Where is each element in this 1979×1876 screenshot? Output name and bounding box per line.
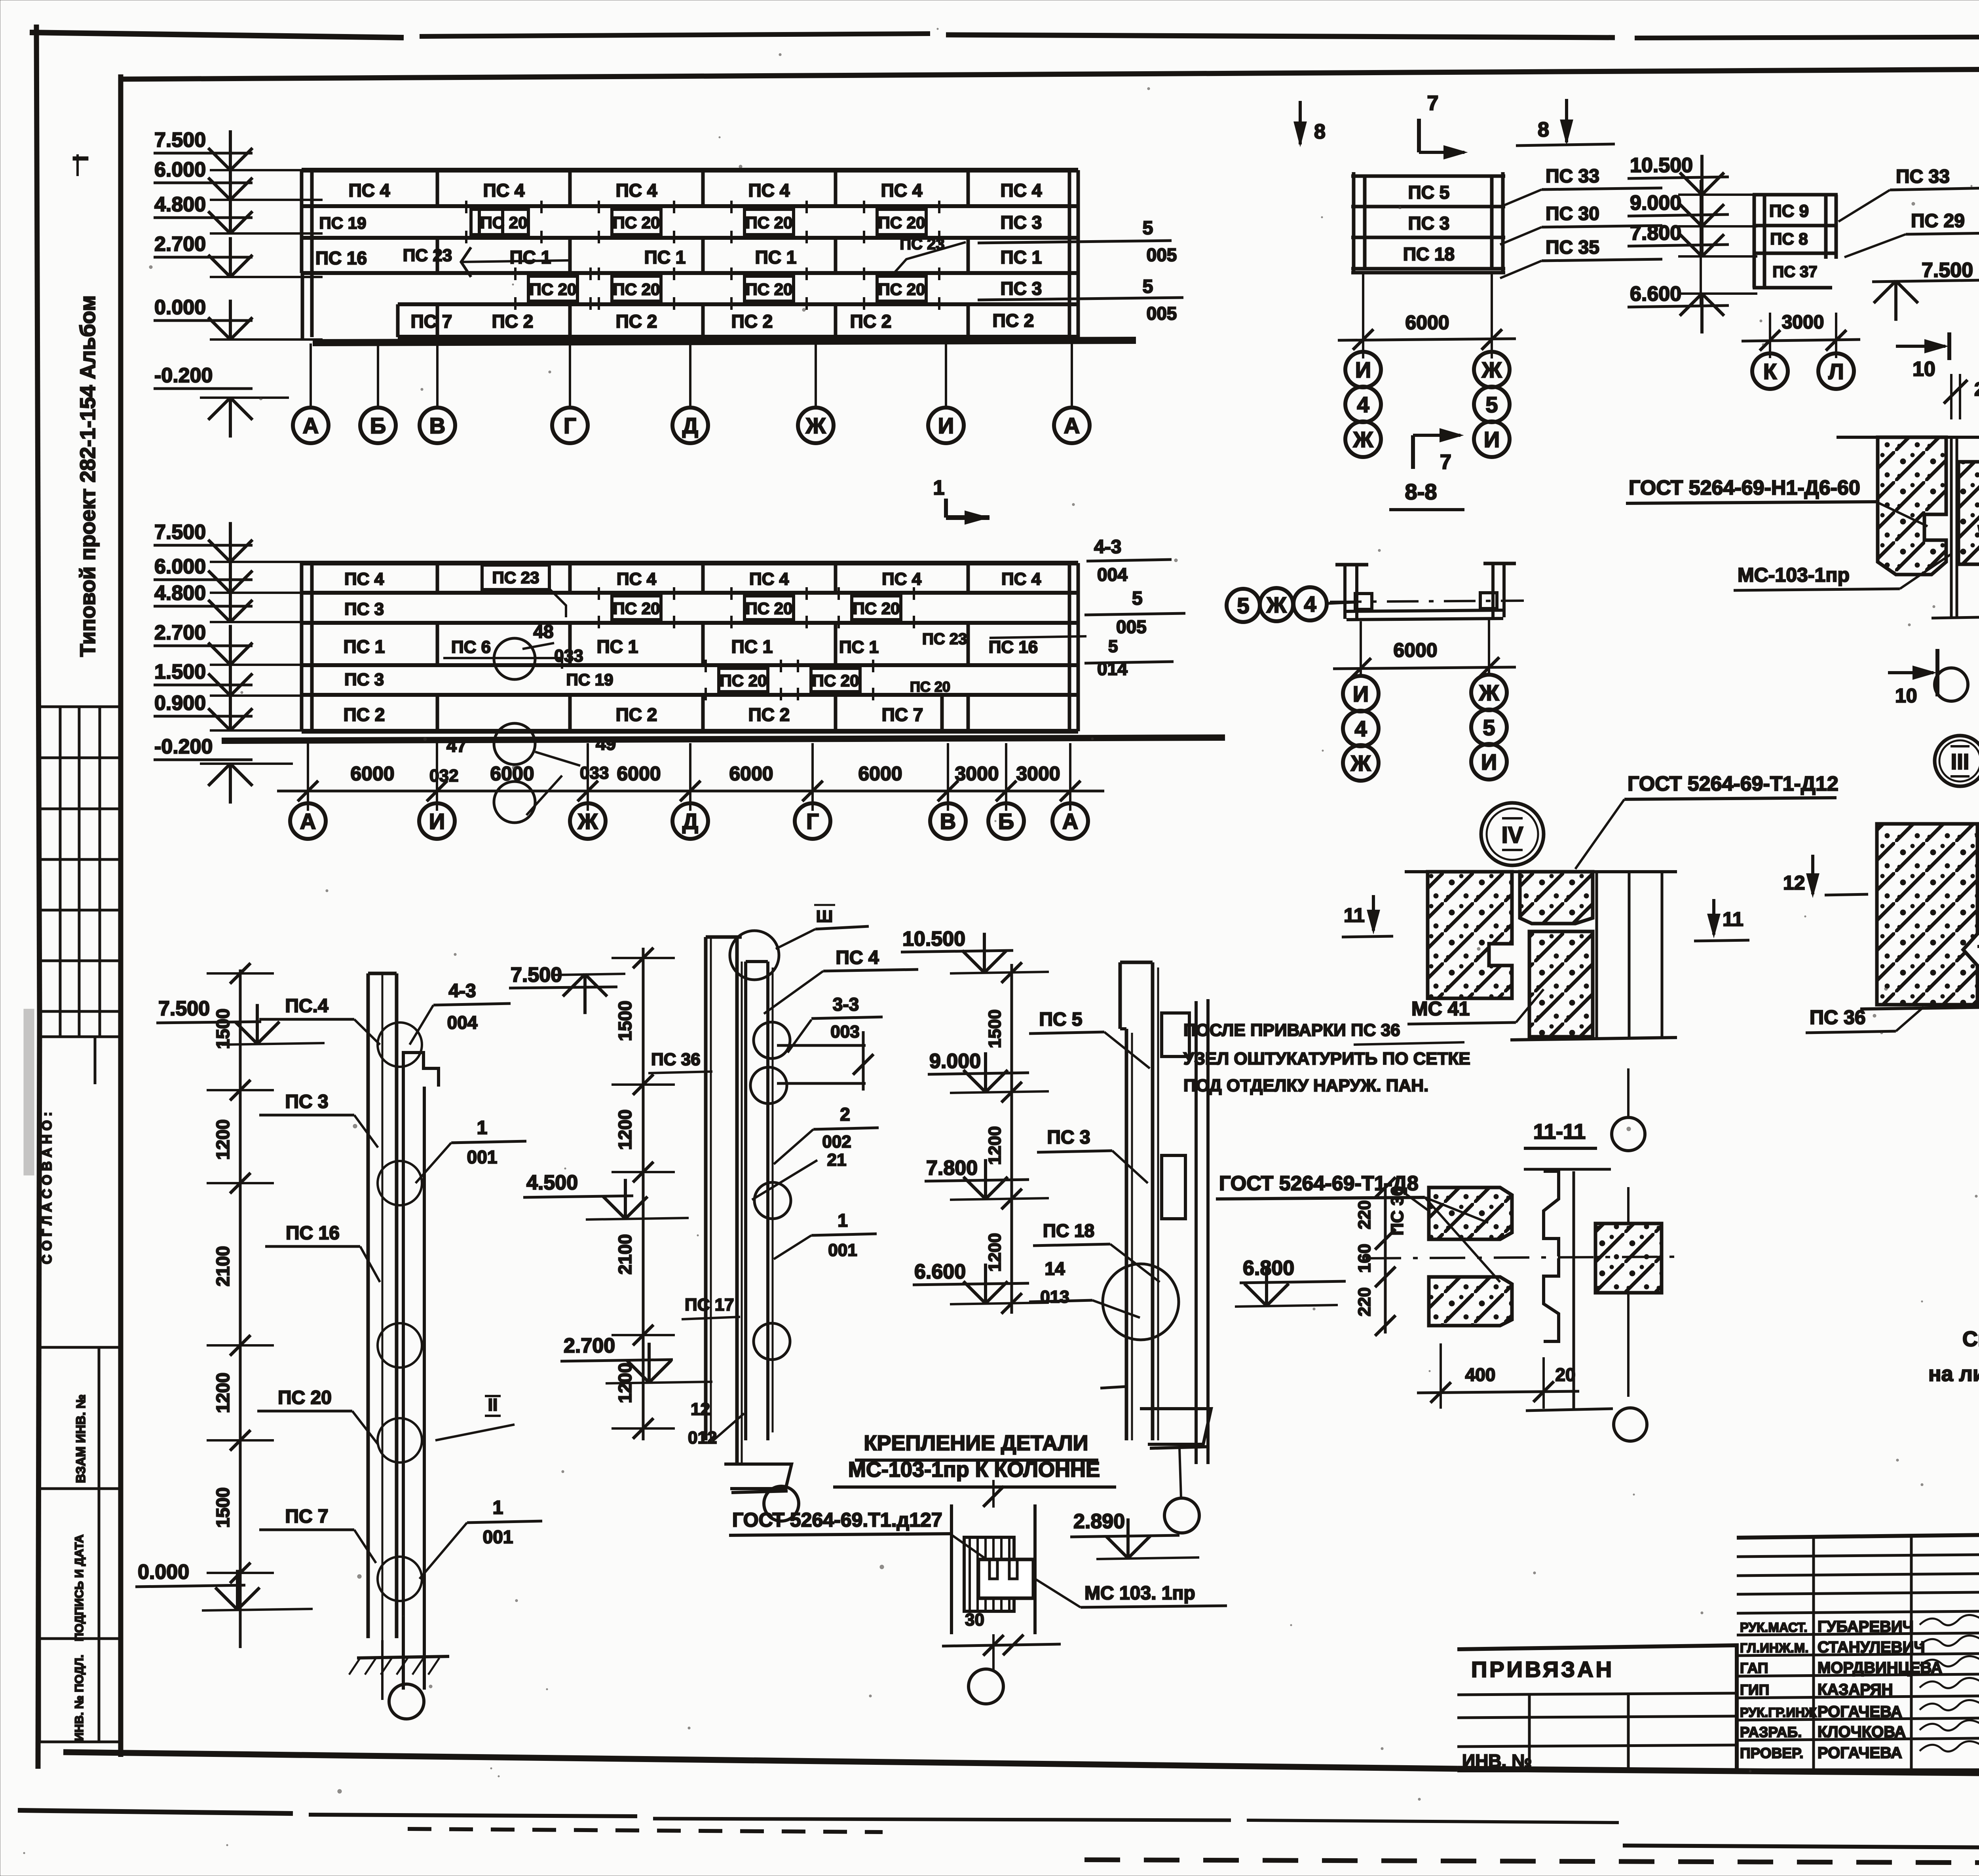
svg-text:7.500: 7.500 [1922, 259, 1973, 282]
svg-text:Б: Б [370, 413, 386, 438]
svg-text:ПС 23: ПС 23 [492, 568, 539, 587]
svg-text:ГОСТ 5264-69-Т1-Д12: ГОСТ 5264-69-Т1-Д12 [1628, 772, 1838, 795]
svg-text:10: 10 [1895, 685, 1917, 707]
svg-text:4.800: 4.800 [154, 193, 206, 216]
svg-text:ПС 33: ПС 33 [1896, 166, 1950, 187]
svg-text:ПС 1: ПС 1 [344, 636, 385, 657]
svg-text:4: 4 [1304, 592, 1316, 616]
svg-text:ПОДПИСЬ И ДАТА: ПОДПИСЬ И ДАТА [73, 1535, 86, 1641]
svg-text:4: 4 [1354, 716, 1367, 741]
svg-text:III: III [1951, 749, 1970, 774]
svg-text:1200: 1200 [615, 1363, 635, 1403]
svg-text:СТАНУЛЕВИЧ: СТАНУЛЕВИЧ [1818, 1639, 1925, 1656]
svg-text:ПС 1: ПС 1 [510, 247, 551, 267]
svg-text:032: 032 [429, 766, 458, 785]
svg-text:ПС 3: ПС 3 [344, 599, 384, 619]
svg-text:ПС 4: ПС 4 [748, 180, 790, 201]
svg-text:3000: 3000 [955, 763, 999, 785]
svg-text:1200: 1200 [985, 1126, 1005, 1165]
svg-text:ПС 8: ПС 8 [1770, 230, 1808, 248]
svg-text:0.900: 0.900 [154, 692, 206, 715]
svg-text:6.000: 6.000 [154, 158, 206, 181]
svg-text:ПС 3: ПС 3 [1001, 278, 1042, 299]
svg-text:ПС 19: ПС 19 [566, 670, 613, 689]
svg-text:ПС 1: ПС 1 [597, 636, 638, 657]
svg-text:005: 005 [1147, 245, 1177, 265]
svg-text:ПС 2: ПС 2 [731, 311, 773, 332]
svg-text:ПС 4: ПС 4 [836, 947, 879, 968]
svg-text:ПС 20: ПС 20 [878, 280, 925, 299]
svg-text:1: 1 [933, 476, 945, 499]
svg-text:1500: 1500 [615, 1001, 635, 1041]
svg-text:ГИП: ГИП [1740, 1682, 1769, 1698]
svg-text:МС-103-1пр: МС-103-1пр [1738, 564, 1850, 586]
svg-text:ПС 36: ПС 36 [651, 1050, 701, 1069]
svg-text:Д: Д [682, 809, 698, 834]
svg-text:5: 5 [1485, 392, 1498, 417]
svg-text:ПС 20: ПС 20 [481, 213, 528, 232]
svg-text:ПС 20: ПС 20 [910, 679, 950, 695]
svg-text:В: В [429, 413, 445, 438]
svg-text:Ж: Ж [1266, 592, 1287, 617]
svg-text:ПС 2: ПС 2 [344, 704, 385, 725]
svg-text:И: И [1484, 427, 1500, 452]
svg-text:47: 47 [446, 735, 467, 756]
svg-text:ПС 4: ПС 4 [749, 569, 789, 589]
svg-text:ПС 20: ПС 20 [746, 213, 793, 232]
svg-text:ПС 2: ПС 2 [616, 704, 657, 725]
svg-text:Д: Д [682, 413, 698, 438]
svg-text:ПС 4: ПС 4 [1001, 569, 1041, 589]
svg-text:7.800: 7.800 [926, 1157, 978, 1180]
svg-text:Л: Л [1828, 359, 1844, 384]
svg-text:1500: 1500 [213, 1487, 233, 1528]
svg-text:3-3: 3-3 [833, 994, 859, 1015]
svg-text:ПС 20: ПС 20 [878, 213, 925, 232]
svg-text:Г: Г [564, 413, 576, 438]
svg-text:ВЗАМ ИНВ. №: ВЗАМ ИНВ. № [74, 1394, 88, 1483]
svg-text:Спецификация панелей: Спецификация панелей [1962, 1327, 1979, 1351]
svg-text:И: И [429, 809, 445, 834]
svg-text:160: 160 [1355, 1244, 1374, 1273]
svg-text:ПС 1: ПС 1 [644, 247, 686, 267]
svg-text:ПОД ОТДЕЛКУ НАРУЖ. ПАН.: ПОД ОТДЕЛКУ НАРУЖ. ПАН. [1183, 1076, 1428, 1095]
svg-text:2.700: 2.700 [154, 233, 206, 256]
svg-text:10.500: 10.500 [902, 928, 965, 950]
svg-text:МС-103-1пр К КОЛОННЕ: МС-103-1пр К КОЛОННЕ [848, 1458, 1100, 1481]
svg-text:ПС 20: ПС 20 [853, 599, 900, 618]
svg-text:ПОСЛЕ ПРИВАРКИ ПС 36: ПОСЛЕ ПРИВАРКИ ПС 36 [1183, 1021, 1400, 1040]
svg-text:002: 002 [822, 1132, 851, 1151]
svg-text:ИНВ. №: ИНВ. № [1462, 1751, 1532, 1771]
svg-text:5: 5 [1483, 715, 1495, 740]
svg-text:ПС 20: ПС 20 [746, 599, 793, 618]
svg-text:ПС 36: ПС 36 [1810, 1006, 1866, 1028]
svg-text:ГАП: ГАП [1740, 1660, 1768, 1676]
svg-text:003: 003 [830, 1022, 859, 1041]
svg-text:ПРИВЯЗАН: ПРИВЯЗАН [1471, 1657, 1614, 1682]
svg-text:9.000: 9.000 [929, 1050, 981, 1073]
svg-text:ПС 1: ПС 1 [839, 637, 879, 657]
svg-text:ПС 5: ПС 5 [1039, 1009, 1082, 1030]
svg-text:I: I [69, 156, 93, 161]
svg-text:3000: 3000 [1016, 763, 1060, 785]
svg-text:012: 012 [688, 1428, 717, 1447]
svg-text:ПС 1: ПС 1 [731, 636, 773, 657]
svg-text:ПС 3: ПС 3 [1001, 212, 1042, 233]
svg-text:РУК.ГР.ИНЖ: РУК.ГР.ИНЖ [1740, 1705, 1817, 1720]
svg-text:А: А [1062, 809, 1078, 834]
svg-text:ИНВ. № ПОДЛ.: ИНВ. № ПОДЛ. [73, 1654, 86, 1741]
svg-text:И: И [1355, 357, 1371, 382]
svg-text:Ж: Ж [805, 413, 826, 438]
svg-text:ГЛ.ИНЖ.М.: ГЛ.ИНЖ.М. [1740, 1641, 1808, 1655]
svg-text:11: 11 [1723, 908, 1743, 930]
svg-text:001: 001 [828, 1241, 857, 1260]
svg-text:ПС 4: ПС 4 [616, 180, 657, 201]
svg-text:УЗЕЛ ОШТУКАТУРИТЬ ПО СЕТКЕ: УЗЕЛ ОШТУКАТУРИТЬ ПО СЕТКЕ [1183, 1049, 1470, 1068]
svg-text:ПС 16: ПС 16 [989, 637, 1038, 657]
svg-text:Ш: Ш [816, 907, 833, 926]
svg-text:6000: 6000 [617, 763, 661, 785]
svg-text:8: 8 [1538, 118, 1549, 141]
svg-text:7.800: 7.800 [1630, 222, 1681, 245]
svg-text:Ж: Ж [1479, 680, 1499, 705]
svg-text:КРЕПЛЕНИЕ ДЕТАЛИ: КРЕПЛЕНИЕ ДЕТАЛИ [864, 1431, 1088, 1455]
svg-text:ГОСТ 5264-69.Т1.д127: ГОСТ 5264-69.Т1.д127 [732, 1509, 942, 1531]
svg-text:7: 7 [1427, 92, 1439, 115]
svg-text:Ж: Ж [577, 809, 598, 834]
svg-text:ПС 17: ПС 17 [685, 1295, 734, 1315]
svg-text:6.600: 6.600 [1630, 283, 1681, 305]
svg-text:Ж: Ж [1353, 427, 1373, 452]
svg-text:Типовой проект 282-1-154: Типовой проект 282-1-154 Альбом [76, 295, 100, 657]
svg-text:004: 004 [447, 1012, 478, 1033]
svg-text:4-3: 4-3 [448, 981, 476, 1002]
svg-text:И: И [938, 413, 954, 438]
svg-text:20: 20 [1555, 1364, 1575, 1385]
svg-text:Г: Г [806, 809, 819, 834]
svg-text:РУК.МАСТ.: РУК.МАСТ. [1740, 1620, 1808, 1635]
svg-text:2.700: 2.700 [154, 621, 206, 644]
svg-text:ПС 4: ПС 4 [1001, 180, 1042, 201]
svg-text:033: 033 [580, 763, 609, 783]
svg-text:7: 7 [1440, 451, 1451, 474]
svg-text:ПС 33: ПС 33 [1546, 166, 1599, 187]
svg-text:1: 1 [477, 1117, 488, 1138]
svg-text:5: 5 [1143, 276, 1153, 297]
svg-text:ПС 7: ПС 7 [882, 704, 923, 725]
svg-text:МС 41: МС 41 [1411, 998, 1470, 1020]
svg-text:10.500: 10.500 [1630, 154, 1693, 177]
svg-text:ПС 16: ПС 16 [286, 1223, 340, 1244]
svg-text:ПС 2: ПС 2 [850, 311, 892, 332]
svg-text:ПС.4: ПС.4 [285, 996, 329, 1017]
svg-text:ПРОВЕР.: ПРОВЕР. [1740, 1745, 1803, 1761]
svg-text:4: 4 [1357, 392, 1369, 417]
svg-text:5: 5 [1237, 593, 1249, 618]
svg-text:ГУБАРЕВИЧ: ГУБАРЕВИЧ [1818, 1618, 1914, 1635]
svg-text:-0.200: -0.200 [154, 735, 213, 758]
svg-text:4.500: 4.500 [526, 1171, 578, 1194]
svg-text:1500: 1500 [213, 1009, 233, 1049]
svg-text:ПС 16: ПС 16 [315, 248, 367, 268]
svg-text:ПС 35: ПС 35 [1546, 237, 1599, 258]
svg-text:0.000: 0.000 [154, 296, 206, 319]
svg-text:ПС 20: ПС 20 [613, 599, 660, 618]
svg-text:48: 48 [533, 621, 553, 642]
svg-text:ПС 30: ПС 30 [1546, 203, 1599, 224]
svg-text:Ж: Ж [1350, 751, 1371, 776]
svg-text:20: 20 [1974, 379, 1979, 400]
svg-text:ПС 4: ПС 4 [349, 180, 390, 201]
svg-text:8: 8 [1314, 120, 1326, 143]
svg-text:ПС 2: ПС 2 [993, 310, 1034, 331]
svg-text:ПС 4: ПС 4 [882, 569, 922, 589]
svg-text:2.890: 2.890 [1073, 1510, 1125, 1533]
svg-text:ПС 3: ПС 3 [285, 1091, 328, 1112]
svg-text:РАЗРАБ.: РАЗРАБ. [1740, 1724, 1802, 1740]
svg-text:ПС 20: ПС 20 [613, 213, 660, 232]
svg-text:7.500: 7.500 [154, 521, 206, 544]
svg-text:1200: 1200 [615, 1110, 635, 1150]
svg-text:30: 30 [965, 1610, 984, 1629]
svg-text:ПС 4: ПС 4 [617, 569, 657, 589]
svg-text:5: 5 [1108, 637, 1118, 656]
svg-text:ПС 5: ПС 5 [1408, 182, 1450, 203]
svg-text:14: 14 [1045, 1258, 1065, 1279]
svg-text:6000: 6000 [858, 763, 902, 785]
svg-text:Ж: Ж [1481, 357, 1502, 382]
svg-text:21: 21 [827, 1150, 847, 1170]
svg-text:005: 005 [1116, 616, 1147, 637]
svg-text:IV: IV [1502, 822, 1523, 848]
svg-text:5: 5 [1143, 218, 1153, 239]
svg-text:2100: 2100 [213, 1246, 233, 1286]
svg-text:11-11: 11-11 [1533, 1120, 1586, 1144]
svg-text:КАЗАРЯН: КАЗАРЯН [1818, 1681, 1893, 1698]
svg-text:1: 1 [493, 1497, 503, 1518]
svg-text:014: 014 [1097, 658, 1128, 679]
svg-text:ПС 23: ПС 23 [922, 630, 967, 648]
svg-text:ГОСТ 5264-69-Н1-Д6-60: ГОСТ 5264-69-Н1-Д6-60 [1629, 476, 1860, 499]
svg-text:7.500: 7.500 [154, 129, 206, 152]
svg-text:Б: Б [998, 809, 1014, 834]
svg-text:001: 001 [483, 1527, 513, 1547]
svg-text:ПС 18: ПС 18 [1043, 1220, 1094, 1241]
svg-text:1: 1 [838, 1210, 848, 1231]
svg-text:ПС 19: ПС 19 [319, 214, 367, 232]
svg-text:на листе 47: на листе 47 [1928, 1362, 1979, 1386]
svg-text:ПС 20: ПС 20 [613, 280, 660, 299]
svg-text:И: И [1353, 681, 1369, 706]
svg-text:С О Г Л А С О В А Н О :: С О Г Л А С О В А Н О : [40, 1112, 55, 1264]
svg-text:400: 400 [1465, 1364, 1496, 1385]
svg-text:2: 2 [840, 1104, 850, 1125]
svg-text:ПС 7: ПС 7 [411, 311, 452, 332]
svg-text:12: 12 [691, 1400, 710, 1419]
svg-text:013: 013 [1040, 1287, 1069, 1307]
svg-text:005: 005 [1147, 303, 1177, 324]
svg-text:ПС 37: ПС 37 [1772, 263, 1817, 281]
svg-text:ПС 20: ПС 20 [746, 280, 793, 299]
svg-text:2100: 2100 [615, 1234, 635, 1275]
svg-text:ПС 3: ПС 3 [1047, 1127, 1090, 1148]
svg-text:1200: 1200 [985, 1233, 1005, 1272]
svg-text:6.600: 6.600 [914, 1260, 966, 1283]
svg-text:КЛОЧКОВА: КЛОЧКОВА [1818, 1723, 1906, 1741]
svg-text:001: 001 [467, 1147, 498, 1167]
svg-text:004: 004 [1097, 564, 1128, 585]
svg-text:10: 10 [1913, 358, 1935, 381]
svg-text:ПС 9: ПС 9 [1769, 201, 1809, 221]
svg-text:220: 220 [1355, 1200, 1374, 1229]
svg-text:ПС 2: ПС 2 [748, 704, 790, 725]
svg-text:ПС 18: ПС 18 [1403, 244, 1455, 264]
svg-text:0.000: 0.000 [138, 1561, 189, 1584]
svg-text:А: А [1064, 413, 1080, 438]
svg-text:ПС 4: ПС 4 [483, 180, 525, 201]
svg-text:А: А [303, 413, 319, 438]
svg-text:6000: 6000 [1393, 639, 1437, 661]
svg-text:9.000: 9.000 [1630, 192, 1681, 214]
svg-text:4.800: 4.800 [154, 582, 206, 605]
svg-text:РОГАЧЕВА: РОГАЧЕВА [1818, 1744, 1902, 1762]
svg-text:ПС 4: ПС 4 [344, 569, 384, 589]
svg-text:ПС 20: ПС 20 [530, 280, 577, 299]
svg-text:6000: 6000 [1405, 311, 1449, 334]
svg-text:ПС 23: ПС 23 [403, 246, 452, 265]
svg-text:ПС 7: ПС 7 [285, 1506, 328, 1527]
svg-text:6000: 6000 [729, 763, 773, 785]
svg-text:1.500: 1.500 [154, 660, 206, 683]
svg-text:6000: 6000 [490, 763, 534, 785]
svg-text:49: 49 [596, 733, 616, 754]
svg-text:ПС 1: ПС 1 [755, 247, 797, 267]
svg-text:А: А [300, 809, 316, 834]
svg-text:ПС 3: ПС 3 [344, 670, 384, 689]
svg-text:-0.200: -0.200 [154, 364, 213, 387]
svg-text:4-3: 4-3 [1094, 537, 1121, 558]
svg-text:1200: 1200 [213, 1373, 233, 1413]
svg-text:6.800: 6.800 [1243, 1257, 1294, 1280]
svg-text:1200: 1200 [213, 1119, 233, 1160]
svg-text:ПС 2: ПС 2 [492, 311, 534, 332]
svg-text:6.000: 6.000 [154, 555, 206, 578]
svg-text:ПС 1: ПС 1 [1001, 247, 1042, 267]
svg-text:1500: 1500 [985, 1009, 1005, 1048]
svg-text:220: 220 [1355, 1287, 1374, 1316]
svg-text:МС 103. 1пр: МС 103. 1пр [1084, 1583, 1195, 1604]
svg-text:12: 12 [1783, 872, 1805, 894]
svg-text:II: II [488, 1395, 498, 1415]
svg-text:ПС 3: ПС 3 [1408, 213, 1450, 233]
svg-text:ПС 29: ПС 29 [1911, 211, 1965, 231]
svg-text:ПС 6: ПС 6 [451, 637, 491, 657]
svg-text:В: В [940, 809, 956, 834]
svg-text:033: 033 [554, 646, 583, 666]
svg-text:ПС 20: ПС 20 [812, 671, 859, 690]
svg-text:ПС 4: ПС 4 [881, 180, 923, 201]
svg-text:ПС 20: ПС 20 [720, 671, 767, 690]
svg-text:И: И [1481, 749, 1497, 774]
svg-text:2.700: 2.700 [564, 1334, 615, 1357]
svg-text:11: 11 [1344, 904, 1365, 926]
svg-text:7.500: 7.500 [158, 997, 210, 1020]
svg-text:ПС 20: ПС 20 [278, 1387, 332, 1408]
svg-text:5: 5 [1132, 588, 1143, 609]
svg-text:3000: 3000 [1782, 312, 1824, 333]
svg-text:К: К [1763, 359, 1777, 384]
svg-text:6000: 6000 [350, 763, 394, 785]
svg-text:8-8: 8-8 [1405, 479, 1437, 504]
svg-text:РОГАЧЕВА: РОГАЧЕВА [1818, 1703, 1902, 1720]
svg-text:ПС 2: ПС 2 [616, 311, 657, 332]
